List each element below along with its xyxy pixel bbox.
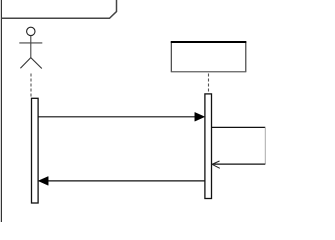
self message bottom line — [212, 163, 265, 165]
object box bottom edge (gray) — [171, 71, 246, 73]
actor right leg — [31, 58, 42, 69]
object box top edge (thicker) — [171, 41, 247, 43]
message 1 filled arrowhead — [195, 112, 205, 121]
right activation bar — [205, 94, 212, 199]
actor body — [30, 36, 32, 58]
self message vertical connector — [264, 127, 266, 164]
message 1 line (left to right) — [39, 116, 197, 118]
frame left border — [0, 0, 2, 222]
object lifeline (dashed) — [208, 74, 210, 94]
actor arms — [19, 42, 42, 44]
message 2 line (right to left) — [48, 180, 205, 182]
actor head — [27, 27, 35, 35]
frame pentagon label — [1, 0, 116, 18]
actor left leg — [20, 58, 30, 69]
self message top line — [212, 126, 265, 128]
object box — [171, 42, 246, 72]
self message open arrowhead — [212, 161, 220, 168]
actor lifeline (dashed) — [30, 74, 32, 98]
message 2 filled arrowhead — [38, 177, 48, 186]
left activation bar — [32, 98, 39, 203]
